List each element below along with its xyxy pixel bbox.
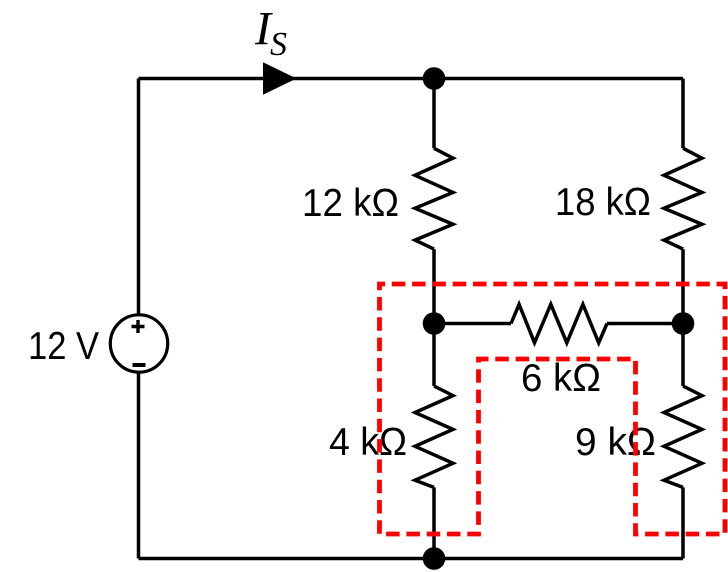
arrow for Is current direction xyxy=(263,62,297,94)
resistor 18k zigzag xyxy=(664,148,702,249)
red dashed highlight region (staple-shaped) xyxy=(380,284,726,534)
wire: node B down to 9k xyxy=(681,324,685,387)
voltage source V1 circle xyxy=(110,315,167,372)
resistor 12k zigzag xyxy=(415,148,453,249)
wire: left vertical above source xyxy=(137,79,141,315)
svg-text:9 kΩ: 9 kΩ xyxy=(575,421,656,464)
wire: 6k right lead to node B xyxy=(607,322,683,326)
svg-text:18 kΩ: 18 kΩ xyxy=(555,181,651,224)
wire: 9k bottom to bottom wire xyxy=(681,487,685,558)
resistor 9k zigzag xyxy=(664,386,702,487)
wire: 18k bottom to node B xyxy=(681,249,685,323)
svg-text:12 V: 12 V xyxy=(28,325,99,368)
svg-text:S: S xyxy=(270,26,287,63)
svg-text:6 kΩ: 6 kΩ xyxy=(521,357,601,400)
svg-text:12 kΩ: 12 kΩ xyxy=(302,182,399,225)
node B: middle right junction xyxy=(672,312,695,335)
node A: middle left junction xyxy=(423,312,446,335)
resistor 4k zigzag xyxy=(415,386,453,487)
wire: node A down to 4k xyxy=(432,324,436,387)
voltage source plus sign xyxy=(132,320,145,333)
svg-text:4 kΩ: 4 kΩ xyxy=(329,421,407,464)
voltage source minus sign xyxy=(133,363,146,367)
node: bottom junction xyxy=(423,547,446,570)
wire: right vertical from top wire to 18k xyxy=(681,79,685,149)
wire: bottom from source to right column xyxy=(139,557,684,561)
node: top junction xyxy=(423,67,446,90)
wire: node A to 6k left lead xyxy=(434,322,511,326)
resistor 6k zigzag xyxy=(511,304,607,343)
wire: 4k bottom to bottom node xyxy=(432,487,436,558)
wire: top from source to right column xyxy=(139,77,684,81)
wire: 12k bottom to node A xyxy=(432,249,436,323)
wire: left vertical below source xyxy=(137,372,141,558)
wire: top node down to 12k xyxy=(432,79,436,149)
